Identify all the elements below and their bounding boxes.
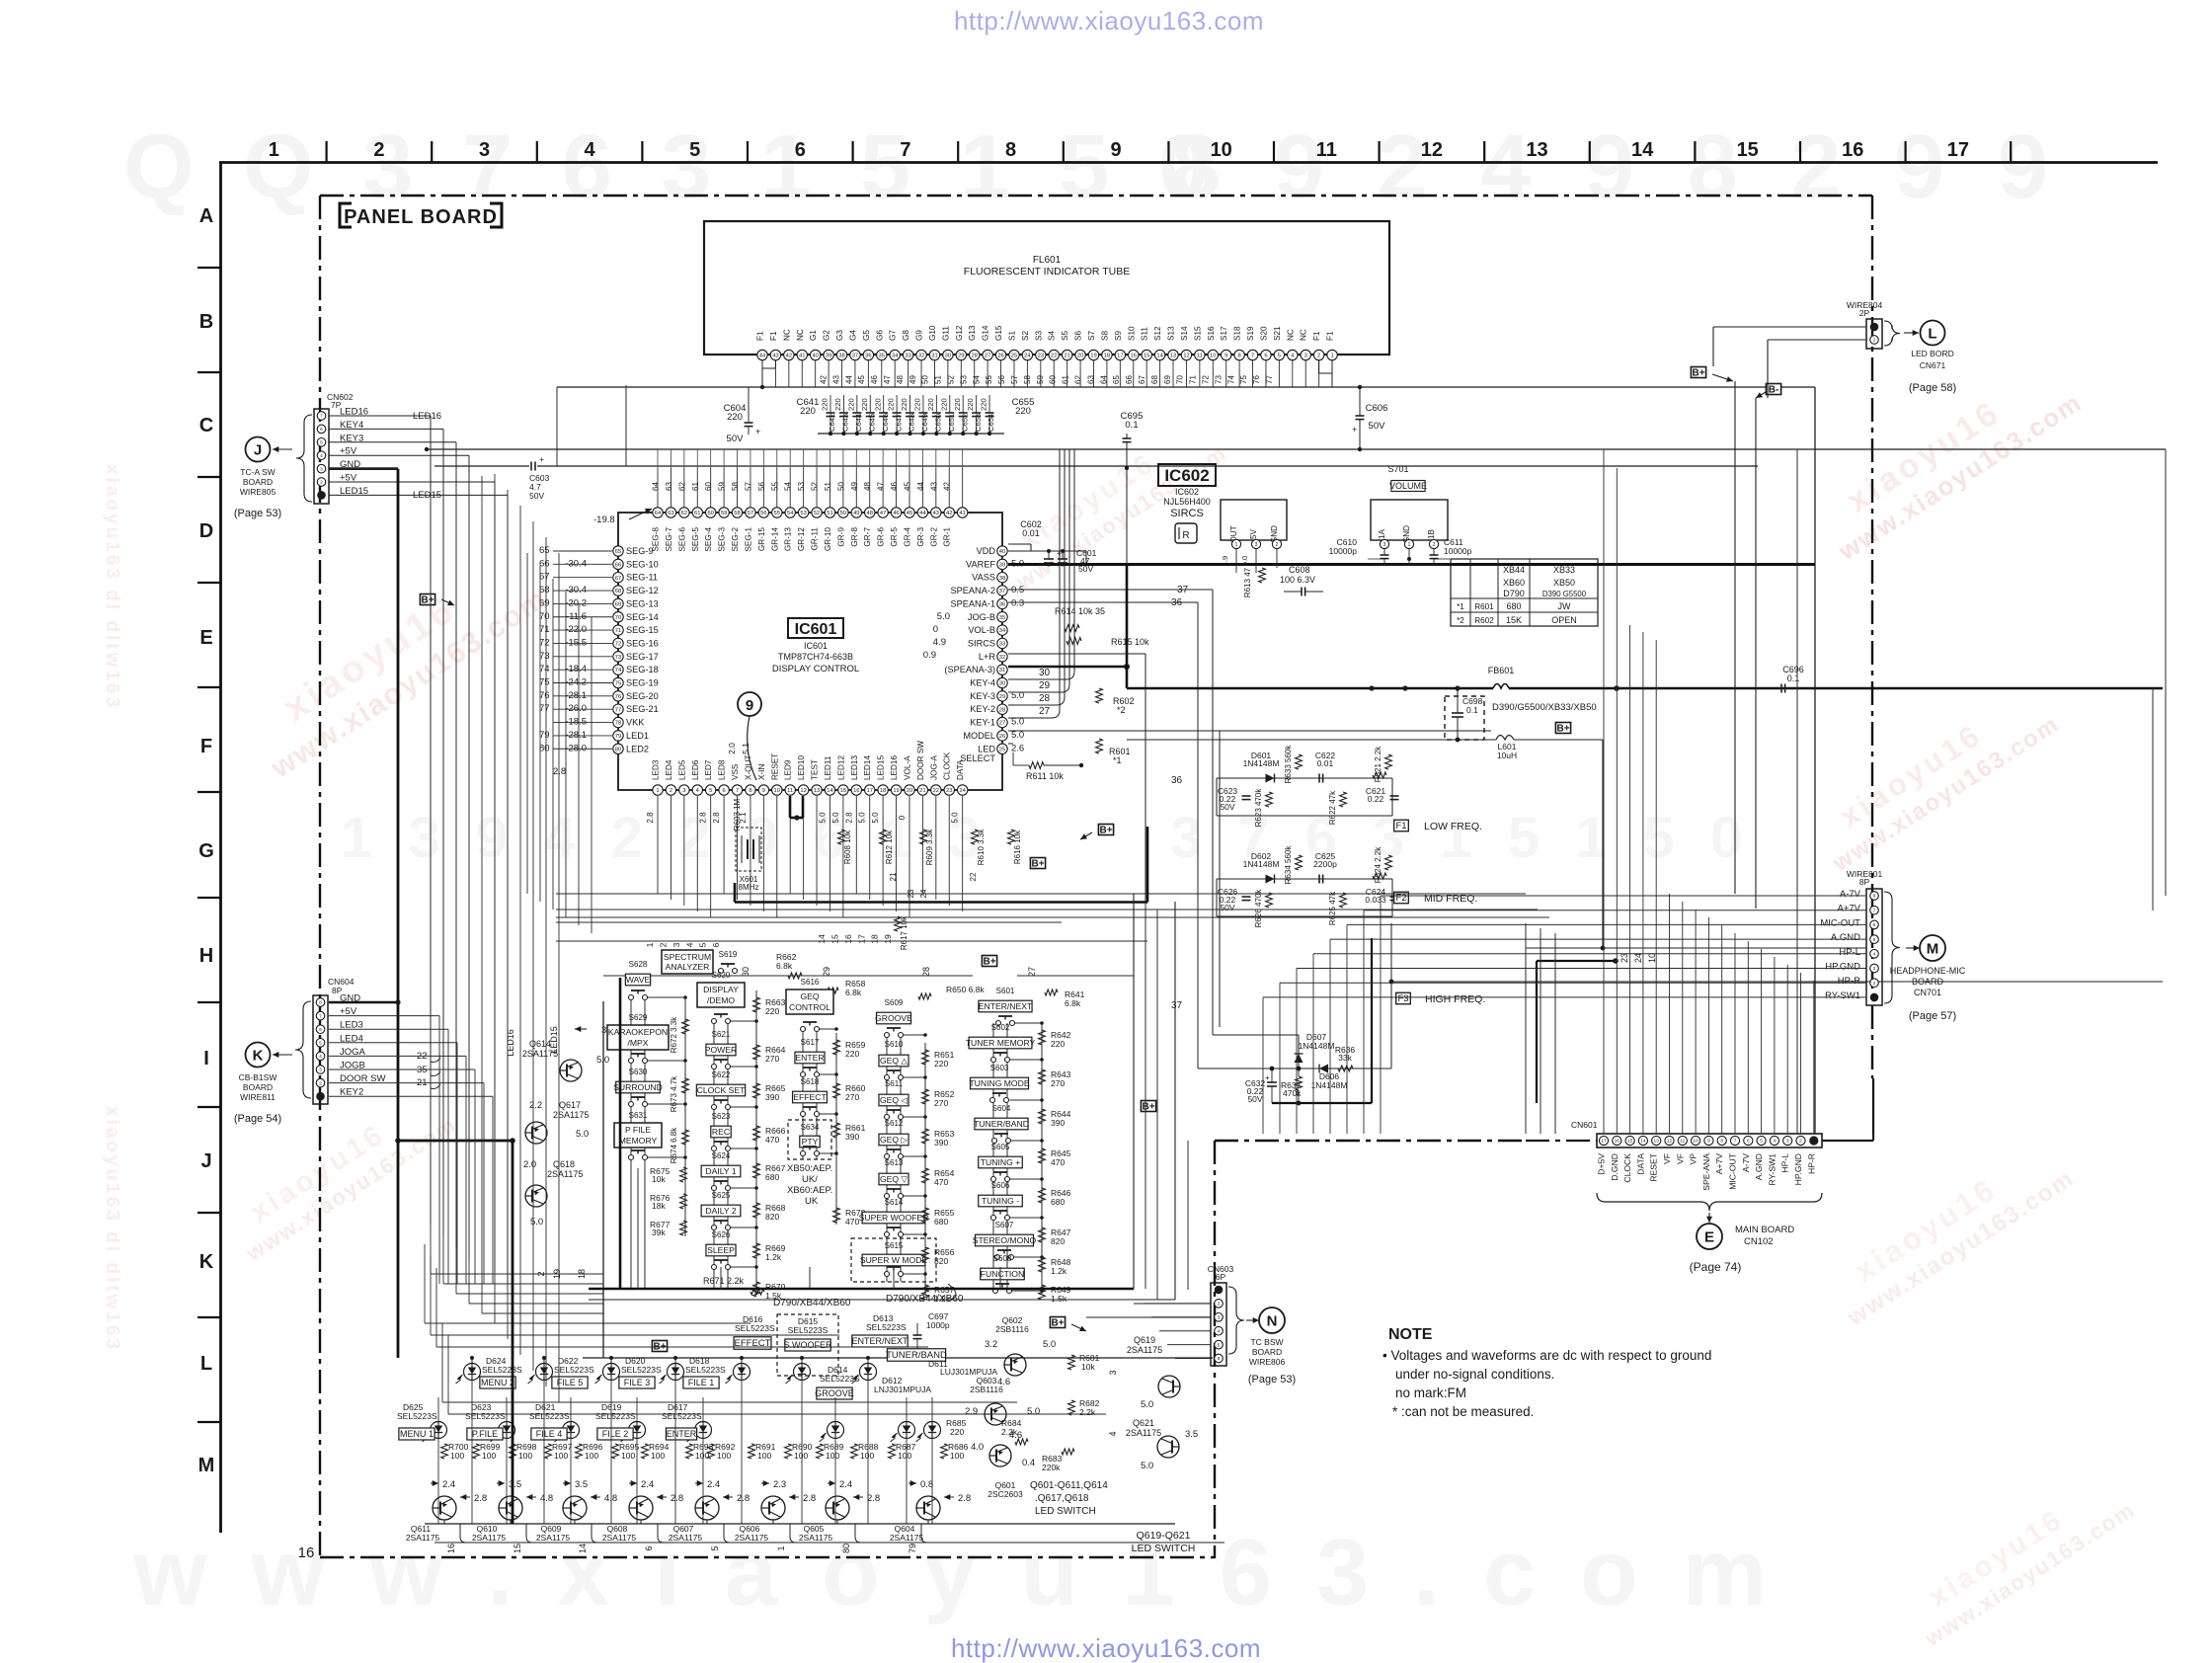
svg-text:+: +	[1352, 425, 1357, 435]
PANEL BOARD title	[340, 203, 352, 227]
svg-text:2: 2	[373, 139, 384, 161]
svg-text:KARAOKEPON: KARAOKEPON	[608, 1027, 668, 1037]
IC601 right pin 25	[997, 744, 1007, 753]
IC601 top pin 52	[812, 508, 822, 517]
svg-text:D790: D790	[1503, 589, 1525, 598]
svg-text:S1: S1	[1007, 331, 1016, 341]
svg-text:4: 4	[585, 139, 596, 161]
svg-text:SEG-6: SEG-6	[677, 527, 686, 552]
value 3.5	[497, 1482, 505, 1484]
power B+ q602	[1050, 1317, 1065, 1328]
svg-text:65: 65	[615, 549, 621, 555]
IR receiver symbol	[1175, 523, 1197, 543]
LED diode D619	[629, 1422, 646, 1439]
FL601 pin 29	[956, 350, 966, 359]
svg-text:0.5: 0.5	[1011, 585, 1024, 595]
svg-text:XB33: XB33	[1553, 565, 1575, 575]
CN602 pin 4	[317, 451, 326, 460]
svg-text:0.1: 0.1	[1125, 420, 1138, 431]
svg-text:10000p: 10000p	[1329, 546, 1358, 556]
wire bus 3	[434, 465, 529, 467]
svg-text:10: 10	[1211, 139, 1232, 161]
ruler row tick	[197, 476, 221, 478]
svg-text:B+: B+	[1692, 367, 1704, 378]
svg-text:VOL-B: VOL-B	[968, 625, 995, 635]
IC601 right pin 26	[997, 731, 1007, 741]
svg-text:S607: S607	[995, 1221, 1014, 1229]
svg-text:80: 80	[841, 1544, 851, 1553]
svg-text:S606: S606	[991, 1181, 1010, 1190]
svg-text:*2: *2	[1457, 616, 1464, 625]
svg-text:S617: S617	[801, 1038, 820, 1047]
svg-text:73: 73	[539, 651, 550, 662]
svg-text:GR-7: GR-7	[863, 527, 872, 547]
IC601 top pin 49	[851, 508, 861, 517]
svg-text:G5: G5	[862, 330, 871, 341]
wire matrix resistor rails	[755, 990, 757, 1292]
IC601 left pin 80	[613, 744, 623, 753]
svg-text:1: 1	[1408, 542, 1411, 548]
wire right mid bundle	[1145, 902, 1146, 1289]
FL601 pin 10	[1208, 350, 1218, 359]
svg-text:22: 22	[933, 788, 939, 794]
svg-text:1000p: 1000p	[926, 1320, 950, 1330]
svg-text:6: 6	[319, 1027, 322, 1033]
svg-text:2: 2	[670, 788, 672, 794]
svg-text:2: 2	[1799, 1139, 1802, 1145]
svg-text:21: 21	[889, 872, 898, 881]
svg-text:G3: G3	[835, 330, 844, 341]
FL601 pin 18	[1102, 350, 1112, 359]
svg-text:2SA1175: 2SA1175	[735, 1533, 769, 1543]
svg-text:CN601: CN601	[1571, 1120, 1598, 1130]
svg-text:ENTER: ENTER	[795, 1053, 824, 1063]
svg-text:4.9: 4.9	[1221, 556, 1229, 567]
svg-text:G9: G9	[915, 330, 924, 341]
panel board border right lower segment	[1872, 1078, 1874, 1134]
svg-text:0.4: 0.4	[1022, 1458, 1035, 1468]
svg-text:2.4: 2.4	[442, 1479, 455, 1490]
svg-text:17: 17	[1947, 139, 1969, 161]
svg-text:Q618: Q618	[553, 1159, 575, 1169]
panel board border right	[1871, 196, 1873, 1078]
svg-text:3: 3	[320, 466, 323, 472]
svg-text:3.2: 3.2	[985, 1339, 997, 1350]
svg-text:NJL56H400: NJL56H400	[1163, 497, 1211, 507]
IC601 left pin 66	[613, 559, 623, 569]
IC601 left pin 79	[613, 731, 623, 741]
svg-text:11: 11	[1680, 1139, 1685, 1145]
svg-text:66: 66	[539, 558, 550, 569]
connector M circle	[1920, 935, 1945, 961]
svg-text:SPECTRUM: SPECTRUM	[664, 952, 711, 962]
WIRE801 pin 5	[1870, 950, 1879, 959]
svg-text:32: 32	[999, 655, 1005, 661]
svg-text:11: 11	[1316, 139, 1337, 161]
svg-text:220: 220	[887, 398, 896, 411]
svg-text:69: 69	[1163, 375, 1172, 384]
WIRE804 wires	[1713, 326, 1866, 328]
svg-text:39: 39	[999, 562, 1005, 568]
resistor R687	[889, 1444, 896, 1459]
svg-text:100: 100	[950, 1451, 964, 1461]
FL601 pin 25	[1009, 350, 1019, 359]
svg-text:100: 100	[518, 1451, 532, 1461]
ruler column tick 10	[1167, 141, 1169, 162]
watermark pink diagonal left-mid	[239, 542, 554, 785]
svg-text:(Page 53): (Page 53)	[234, 508, 281, 519]
svg-text:S604: S604	[992, 1104, 1011, 1113]
IC601 bottom pin 11	[785, 785, 795, 795]
svg-text:100: 100	[651, 1451, 665, 1461]
svg-text:S21: S21	[1273, 326, 1282, 341]
svg-text:Q614: Q614	[529, 1039, 551, 1049]
svg-text:5.0: 5.0	[858, 812, 867, 824]
svg-text:5: 5	[1873, 937, 1876, 943]
svg-text:LED5: LED5	[677, 759, 686, 780]
WIRE801 pin 2	[1870, 906, 1879, 914]
svg-text:R602: R602	[1474, 616, 1494, 625]
capacitor C698 dashed	[1445, 696, 1484, 740]
FL601 pin 35	[877, 350, 887, 359]
svg-text:under no-signal conditions.: under no-signal conditions.	[1395, 1367, 1554, 1382]
svg-text:100 6.3V: 100 6.3V	[1280, 575, 1315, 585]
svg-text:HP.GND: HP.GND	[1793, 1153, 1803, 1185]
IC601 bottom pin 9	[758, 785, 768, 795]
FL601 pin 44	[757, 350, 767, 359]
svg-text:*1: *1	[1457, 602, 1464, 611]
wire MODEL LED	[1008, 730, 1491, 732]
LED diode D625	[431, 1422, 447, 1439]
WIRE801 pin 8	[1870, 993, 1879, 1002]
svg-text:220: 220	[953, 398, 962, 411]
svg-text:IC601: IC601	[804, 641, 828, 651]
value 3.5	[563, 1482, 571, 1484]
svg-text:JW: JW	[1558, 601, 1572, 611]
svg-text:SEG-1: SEG-1	[744, 527, 752, 552]
svg-text:F1: F1	[1326, 331, 1335, 341]
svg-text:41: 41	[799, 354, 805, 359]
svg-text:220: 220	[913, 398, 922, 411]
svg-text:100: 100	[621, 1451, 635, 1461]
svg-text:GEQ ▷: GEQ ▷	[880, 1135, 908, 1145]
IC601 bottom pin 4	[692, 785, 702, 795]
IC601 right pin 28	[997, 704, 1007, 714]
svg-text:P.FILE: P.FILE	[472, 1429, 498, 1439]
svg-text:39k: 39k	[652, 1227, 666, 1237]
svg-text:50V: 50V	[1369, 421, 1386, 432]
svg-text:220: 220	[926, 398, 935, 411]
svg-text:6: 6	[1873, 922, 1876, 928]
capacitor C649	[922, 395, 924, 413]
svg-text:8: 8	[1005, 139, 1016, 161]
svg-text:MENU 2: MENU 2	[481, 1378, 514, 1387]
svg-text:9: 9	[746, 697, 753, 714]
svg-text:B+: B+	[1031, 858, 1044, 869]
svg-text:FUNCTION: FUNCTION	[981, 1269, 1024, 1279]
svg-text:M: M	[198, 1455, 215, 1476]
svg-text:K: K	[253, 1047, 264, 1064]
svg-text:SEL5223S: SEL5223S	[595, 1411, 636, 1421]
svg-text:RY-SW1: RY-SW1	[1767, 1153, 1777, 1186]
svg-text:75: 75	[615, 681, 621, 687]
svg-text:43: 43	[772, 354, 778, 359]
svg-text:15: 15	[829, 934, 839, 944]
svg-text:5.0: 5.0	[937, 611, 950, 622]
svg-text:65: 65	[539, 545, 550, 556]
svg-text:GR-2: GR-2	[929, 527, 938, 547]
svg-text:B+: B+	[1051, 1317, 1064, 1328]
CN601 pin 12	[1665, 1136, 1674, 1145]
svg-text:C645: C645	[867, 414, 876, 432]
power B+ under IC601 a	[1030, 858, 1045, 869]
svg-text:R601: R601	[1474, 602, 1494, 611]
svg-text:LED2: LED2	[626, 744, 649, 753]
CN601 right feed	[1872, 1134, 1874, 1141]
svg-text:*2: *2	[1117, 705, 1126, 715]
svg-text:S3: S3	[1034, 331, 1043, 341]
svg-text:18: 18	[870, 934, 880, 944]
svg-text:70: 70	[539, 611, 550, 622]
svg-text:KEY-1: KEY-1	[970, 718, 995, 728]
svg-text:SEG-18: SEG-18	[626, 665, 659, 674]
svg-text:42: 42	[786, 354, 792, 359]
svg-text:5: 5	[1218, 1342, 1221, 1348]
wire matrix row stubs	[648, 996, 686, 998]
transistor Q604	[916, 1496, 940, 1520]
svg-text:LED11: LED11	[824, 755, 832, 780]
svg-text:15: 15	[1144, 354, 1149, 359]
svg-text:72: 72	[1202, 375, 1211, 384]
LED diode second row	[828, 1422, 844, 1439]
svg-text:25: 25	[999, 747, 1005, 752]
svg-text:13: 13	[1170, 354, 1176, 359]
svg-text:-19.8: -19.8	[593, 515, 615, 525]
wire stair wires bottom left	[494, 474, 496, 1323]
svg-text:ENTER: ENTER	[667, 1429, 697, 1439]
FL601 pin 13	[1168, 350, 1178, 359]
svg-text:7: 7	[900, 139, 910, 161]
IC601 bottom pin 6	[719, 785, 729, 795]
svg-text:LED13: LED13	[850, 755, 859, 780]
svg-text:IC602: IC602	[1175, 487, 1199, 497]
svg-text:14: 14	[1631, 139, 1654, 161]
svg-text:64: 64	[652, 482, 661, 491]
svg-text:MIC-OUT: MIC-OUT	[1728, 1152, 1738, 1190]
svg-text:4: 4	[320, 453, 323, 459]
svg-text:GR-6: GR-6	[877, 527, 886, 547]
svg-text:C652: C652	[960, 414, 969, 432]
wire lower-left horizontals into led matrix	[425, 1322, 750, 1324]
IC601 top pin 56	[758, 508, 768, 517]
svg-text:55: 55	[774, 511, 780, 516]
FL601 pin 40	[810, 350, 820, 359]
svg-text:1: 1	[1330, 354, 1333, 359]
svg-text:• Voltages and waveforms are d: • Voltages and waveforms are dc with res…	[1382, 1348, 1711, 1363]
LED diode D617	[695, 1422, 712, 1439]
svg-text:2.0: 2.0	[727, 743, 737, 754]
ruler column tick 2	[326, 141, 328, 162]
power B+ led row	[652, 1341, 667, 1352]
svg-text:NC: NC	[1286, 329, 1295, 341]
LED diode D620	[603, 1364, 620, 1381]
CN604 pin 3	[316, 1066, 325, 1074]
svg-text:G15: G15	[994, 325, 1003, 341]
svg-text:66: 66	[1125, 375, 1134, 384]
svg-text:12: 12	[1183, 354, 1189, 359]
svg-text:21: 21	[919, 788, 925, 794]
svg-text:71: 71	[1189, 375, 1198, 384]
IC601 top pin 51	[825, 508, 834, 517]
svg-text:37: 37	[999, 589, 1005, 594]
svg-text:69: 69	[615, 601, 621, 607]
svg-text:PTY: PTY	[802, 1137, 819, 1147]
svg-text:NC: NC	[782, 329, 791, 341]
svg-text:62: 62	[677, 482, 686, 491]
svg-text:45: 45	[857, 375, 866, 384]
svg-text:GR-15: GR-15	[757, 527, 766, 552]
svg-text:GR-5: GR-5	[890, 527, 899, 547]
svg-text:S14: S14	[1180, 326, 1189, 341]
svg-text:FILE 4: FILE 4	[536, 1429, 563, 1439]
svg-text:5.0: 5.0	[818, 812, 827, 824]
svg-text:GEQ ◁: GEQ ◁	[880, 1095, 908, 1105]
svg-text:.Q617,Q618: .Q617,Q618	[1035, 1493, 1089, 1504]
svg-text:390: 390	[765, 1092, 779, 1102]
svg-text:47: 47	[880, 511, 886, 516]
svg-text:5: 5	[320, 440, 323, 446]
svg-text:F2: F2	[1395, 893, 1406, 904]
svg-text:42: 42	[943, 482, 952, 491]
svg-text:GEQ: GEQ	[800, 991, 819, 1001]
svg-text:S10: S10	[1127, 326, 1136, 341]
svg-text:NC: NC	[1300, 329, 1308, 341]
svg-text:5: 5	[1278, 354, 1281, 359]
IC601 left pin 67	[613, 573, 623, 583]
svg-text:R616 10k: R616 10k	[1013, 830, 1022, 864]
resistor R698	[510, 1444, 516, 1459]
svg-text:220: 220	[821, 398, 829, 411]
svg-text:15: 15	[513, 1544, 522, 1553]
svg-text:220: 220	[934, 1059, 948, 1069]
switch S615 SUPER W MODE dashed	[851, 1238, 936, 1282]
svg-text:-20.2: -20.2	[565, 597, 587, 608]
svg-text:43: 43	[929, 482, 938, 491]
CN601 brace	[1597, 1193, 1822, 1211]
svg-text:S611: S611	[885, 1079, 904, 1088]
svg-text:XB50: XB50	[1553, 578, 1575, 588]
svg-text:S5: S5	[1061, 331, 1069, 341]
svg-text:B+: B+	[983, 956, 995, 967]
svg-text:G12: G12	[955, 325, 964, 341]
svg-text:R608 10k: R608 10k	[843, 830, 852, 864]
wires KEY right with numbers	[1008, 449, 1074, 679]
svg-text:34: 34	[999, 628, 1006, 634]
svg-text:14: 14	[1640, 1139, 1646, 1145]
wire bundle CN604 right	[438, 1016, 440, 1284]
svg-text:WIRE806: WIRE806	[1249, 1357, 1286, 1367]
svg-text:S608: S608	[993, 1254, 1012, 1263]
svg-text:SEG-2: SEG-2	[731, 527, 740, 552]
power B+ box left	[420, 594, 434, 605]
ruler column tick 6	[747, 141, 749, 162]
svg-text:2SA1175: 2SA1175	[799, 1533, 833, 1543]
ruler row tick	[197, 897, 221, 899]
svg-text:GR-14: GR-14	[770, 527, 779, 552]
svg-text:F1: F1	[769, 331, 778, 341]
svg-text:35: 35	[879, 354, 885, 359]
panel board border cn601 left dash	[1526, 1140, 1597, 1142]
op-amp IC601 body	[618, 513, 1002, 790]
LED diode D618	[668, 1364, 684, 1381]
svg-text:LED15: LED15	[877, 755, 886, 780]
svg-text:3: 3	[479, 139, 490, 161]
svg-text:58: 58	[734, 511, 740, 516]
IC601 bottom pin 24	[957, 785, 967, 795]
svg-text:LED10: LED10	[797, 755, 806, 780]
transistor Q607	[695, 1496, 719, 1520]
svg-text:3: 3	[1108, 1370, 1118, 1375]
CN602 pin 1	[317, 491, 326, 500]
svg-text:KEY-3: KEY-3	[970, 691, 995, 701]
svg-text:D390 G5500: D390 G5500	[1542, 590, 1587, 598]
svg-text:470: 470	[1051, 1157, 1065, 1167]
svg-text:33k: 33k	[1338, 1053, 1352, 1063]
svg-text:1N4148M: 1N4148M	[1243, 859, 1280, 869]
capacitor C646	[883, 395, 885, 413]
svg-text:2.4: 2.4	[707, 1479, 720, 1490]
svg-text:C644: C644	[854, 414, 863, 432]
value 2.3	[761, 1482, 769, 1484]
svg-text:MODEL: MODEL	[963, 731, 995, 741]
svg-text:66: 66	[615, 562, 621, 568]
svg-text:53: 53	[797, 482, 806, 491]
svg-text:xiaoyu163 dl dltw163: xiaoyu163 dl dltw163	[102, 1106, 122, 1352]
svg-text:6: 6	[644, 1545, 654, 1550]
svg-text:20: 20	[907, 788, 912, 794]
svg-text:UK: UK	[805, 1196, 819, 1207]
svg-text:14: 14	[1156, 354, 1163, 359]
svg-text:44: 44	[919, 511, 926, 516]
wire f3 thick vertical	[1371, 938, 1373, 1103]
svg-text:9: 9	[1224, 354, 1227, 359]
svg-text:GR-9: GR-9	[836, 527, 845, 547]
wire bus 2	[427, 448, 2166, 450]
svg-text:29: 29	[958, 354, 964, 359]
svg-text:2.8: 2.8	[646, 812, 655, 824]
FL601 pin 26	[995, 350, 1005, 359]
svg-text:xiaoyu163 dl dltw163: xiaoyu163 dl dltw163	[102, 464, 122, 710]
svg-text:1.2k: 1.2k	[1051, 1266, 1067, 1276]
svg-text:16: 16	[1842, 139, 1863, 161]
switch S634 PTY dashed	[788, 1120, 831, 1159]
svg-text:56: 56	[997, 375, 1006, 384]
panel board border bottom	[320, 1556, 1215, 1558]
svg-text:no mark:FM: no mark:FM	[1395, 1386, 1466, 1400]
svg-text:43: 43	[831, 375, 840, 384]
svg-text:5.0: 5.0	[1027, 1406, 1040, 1417]
wire thick bus under IC601	[735, 901, 1147, 904]
svg-text:/DEMO: /DEMO	[707, 995, 735, 1005]
wires 23 24 thick bends	[1526, 947, 1866, 949]
svg-text:SEL5223S: SEL5223S	[685, 1365, 726, 1375]
svg-text:-28.1: -28.1	[565, 730, 587, 741]
IC601 left pin 76	[613, 691, 623, 701]
svg-text:68: 68	[615, 589, 621, 594]
svg-text:1: 1	[1235, 542, 1238, 548]
svg-text:CB-B1SW: CB-B1SW	[239, 1072, 277, 1082]
transistor Q601	[989, 1445, 1011, 1466]
